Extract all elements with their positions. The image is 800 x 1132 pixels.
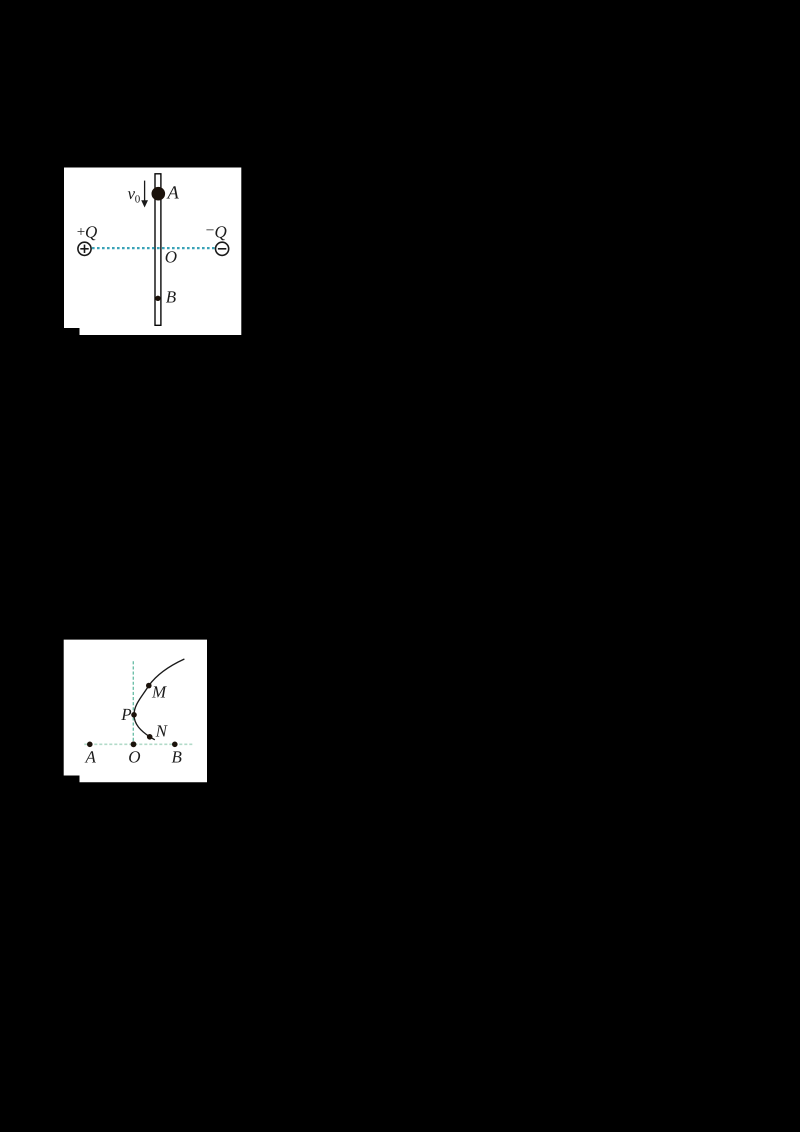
svg-text:B: B: [172, 747, 183, 766]
dashed line between charges (cyan): [92, 247, 215, 249]
white panel 2 (with notched bottom-left corner): [64, 640, 207, 783]
point A: [87, 742, 93, 748]
svg-text:M: M: [151, 683, 167, 702]
positive charge symbol (circle with plus): [78, 242, 91, 255]
svg-text:P: P: [120, 705, 131, 724]
ball A on rod: [152, 187, 166, 201]
point N: [147, 734, 153, 740]
arrow v0 (downward): [144, 181, 146, 202]
horizontal dashed line through A O B: [84, 743, 192, 745]
point P: [131, 712, 137, 718]
point O: [131, 741, 137, 747]
rod (hollow tube): [155, 174, 161, 325]
svg-text:A: A: [85, 747, 97, 766]
white panel 1 (with notched bottom-left corner): [64, 168, 241, 336]
svg-text:N: N: [155, 721, 169, 740]
vertical dashed guide line through P and O: [132, 661, 134, 744]
point M: [146, 683, 152, 689]
trajectory curve through M, P, N: [134, 659, 184, 740]
point B: [172, 742, 178, 748]
negative charge symbol (circle with minus): [216, 242, 229, 255]
point B on rod: [155, 296, 160, 301]
svg-text:O: O: [128, 747, 140, 766]
